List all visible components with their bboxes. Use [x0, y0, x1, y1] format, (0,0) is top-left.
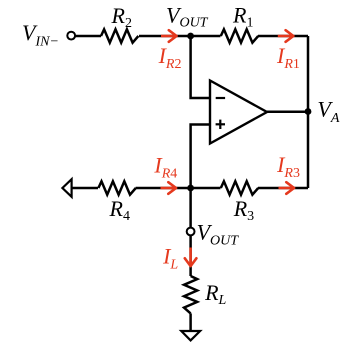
- current arrow I_R2: [161, 30, 177, 42]
- resistor R4: [98, 181, 135, 194]
- resistor RL: [184, 276, 197, 313]
- node VA: [305, 108, 312, 115]
- current arrow I_R1: [278, 30, 294, 42]
- wire: R2 to node VOUT: [139, 35, 191, 38]
- resistor R1: [221, 29, 258, 42]
- wire: node to R1: [191, 35, 221, 38]
- wire: R4 to bottom node: [136, 187, 191, 190]
- terminal VIN- open circle: [67, 32, 75, 40]
- wire: R1 to top-right corner: [258, 35, 308, 38]
- terminal: left open arrow: [62, 179, 71, 197]
- node VOUT (top): [187, 33, 194, 40]
- wire: feedback stub from top node down to inverting input: [191, 36, 210, 98]
- wire: R3 to bottom-right corner: [258, 187, 308, 190]
- current arrow I_R3: [279, 182, 295, 194]
- op-amp minus sign: [216, 97, 225, 99]
- wire: stub from bottom node up to non-inverting input: [191, 125, 210, 189]
- wire: op-amp output to node VA: [267, 110, 308, 113]
- wire: bottom node down to RL: [189, 188, 192, 276]
- current arrow I_L: [185, 248, 197, 267]
- op-amp plus sign: [216, 123, 225, 125]
- op-amp U1: [210, 81, 267, 144]
- wire: input terminal to R2: [75, 35, 101, 38]
- wire: right vertical rail: [307, 36, 310, 188]
- wire: RL to ground: [189, 313, 192, 331]
- resistor R3: [221, 181, 258, 194]
- ground: [181, 331, 200, 340]
- wire: node to R3: [191, 187, 221, 190]
- wire: arrow to R4: [72, 187, 98, 190]
- node bottom junction: [187, 185, 194, 192]
- terminal VOUT open circle: [187, 228, 195, 236]
- resistor R2: [101, 29, 138, 42]
- current arrow I_R4: [161, 182, 177, 194]
